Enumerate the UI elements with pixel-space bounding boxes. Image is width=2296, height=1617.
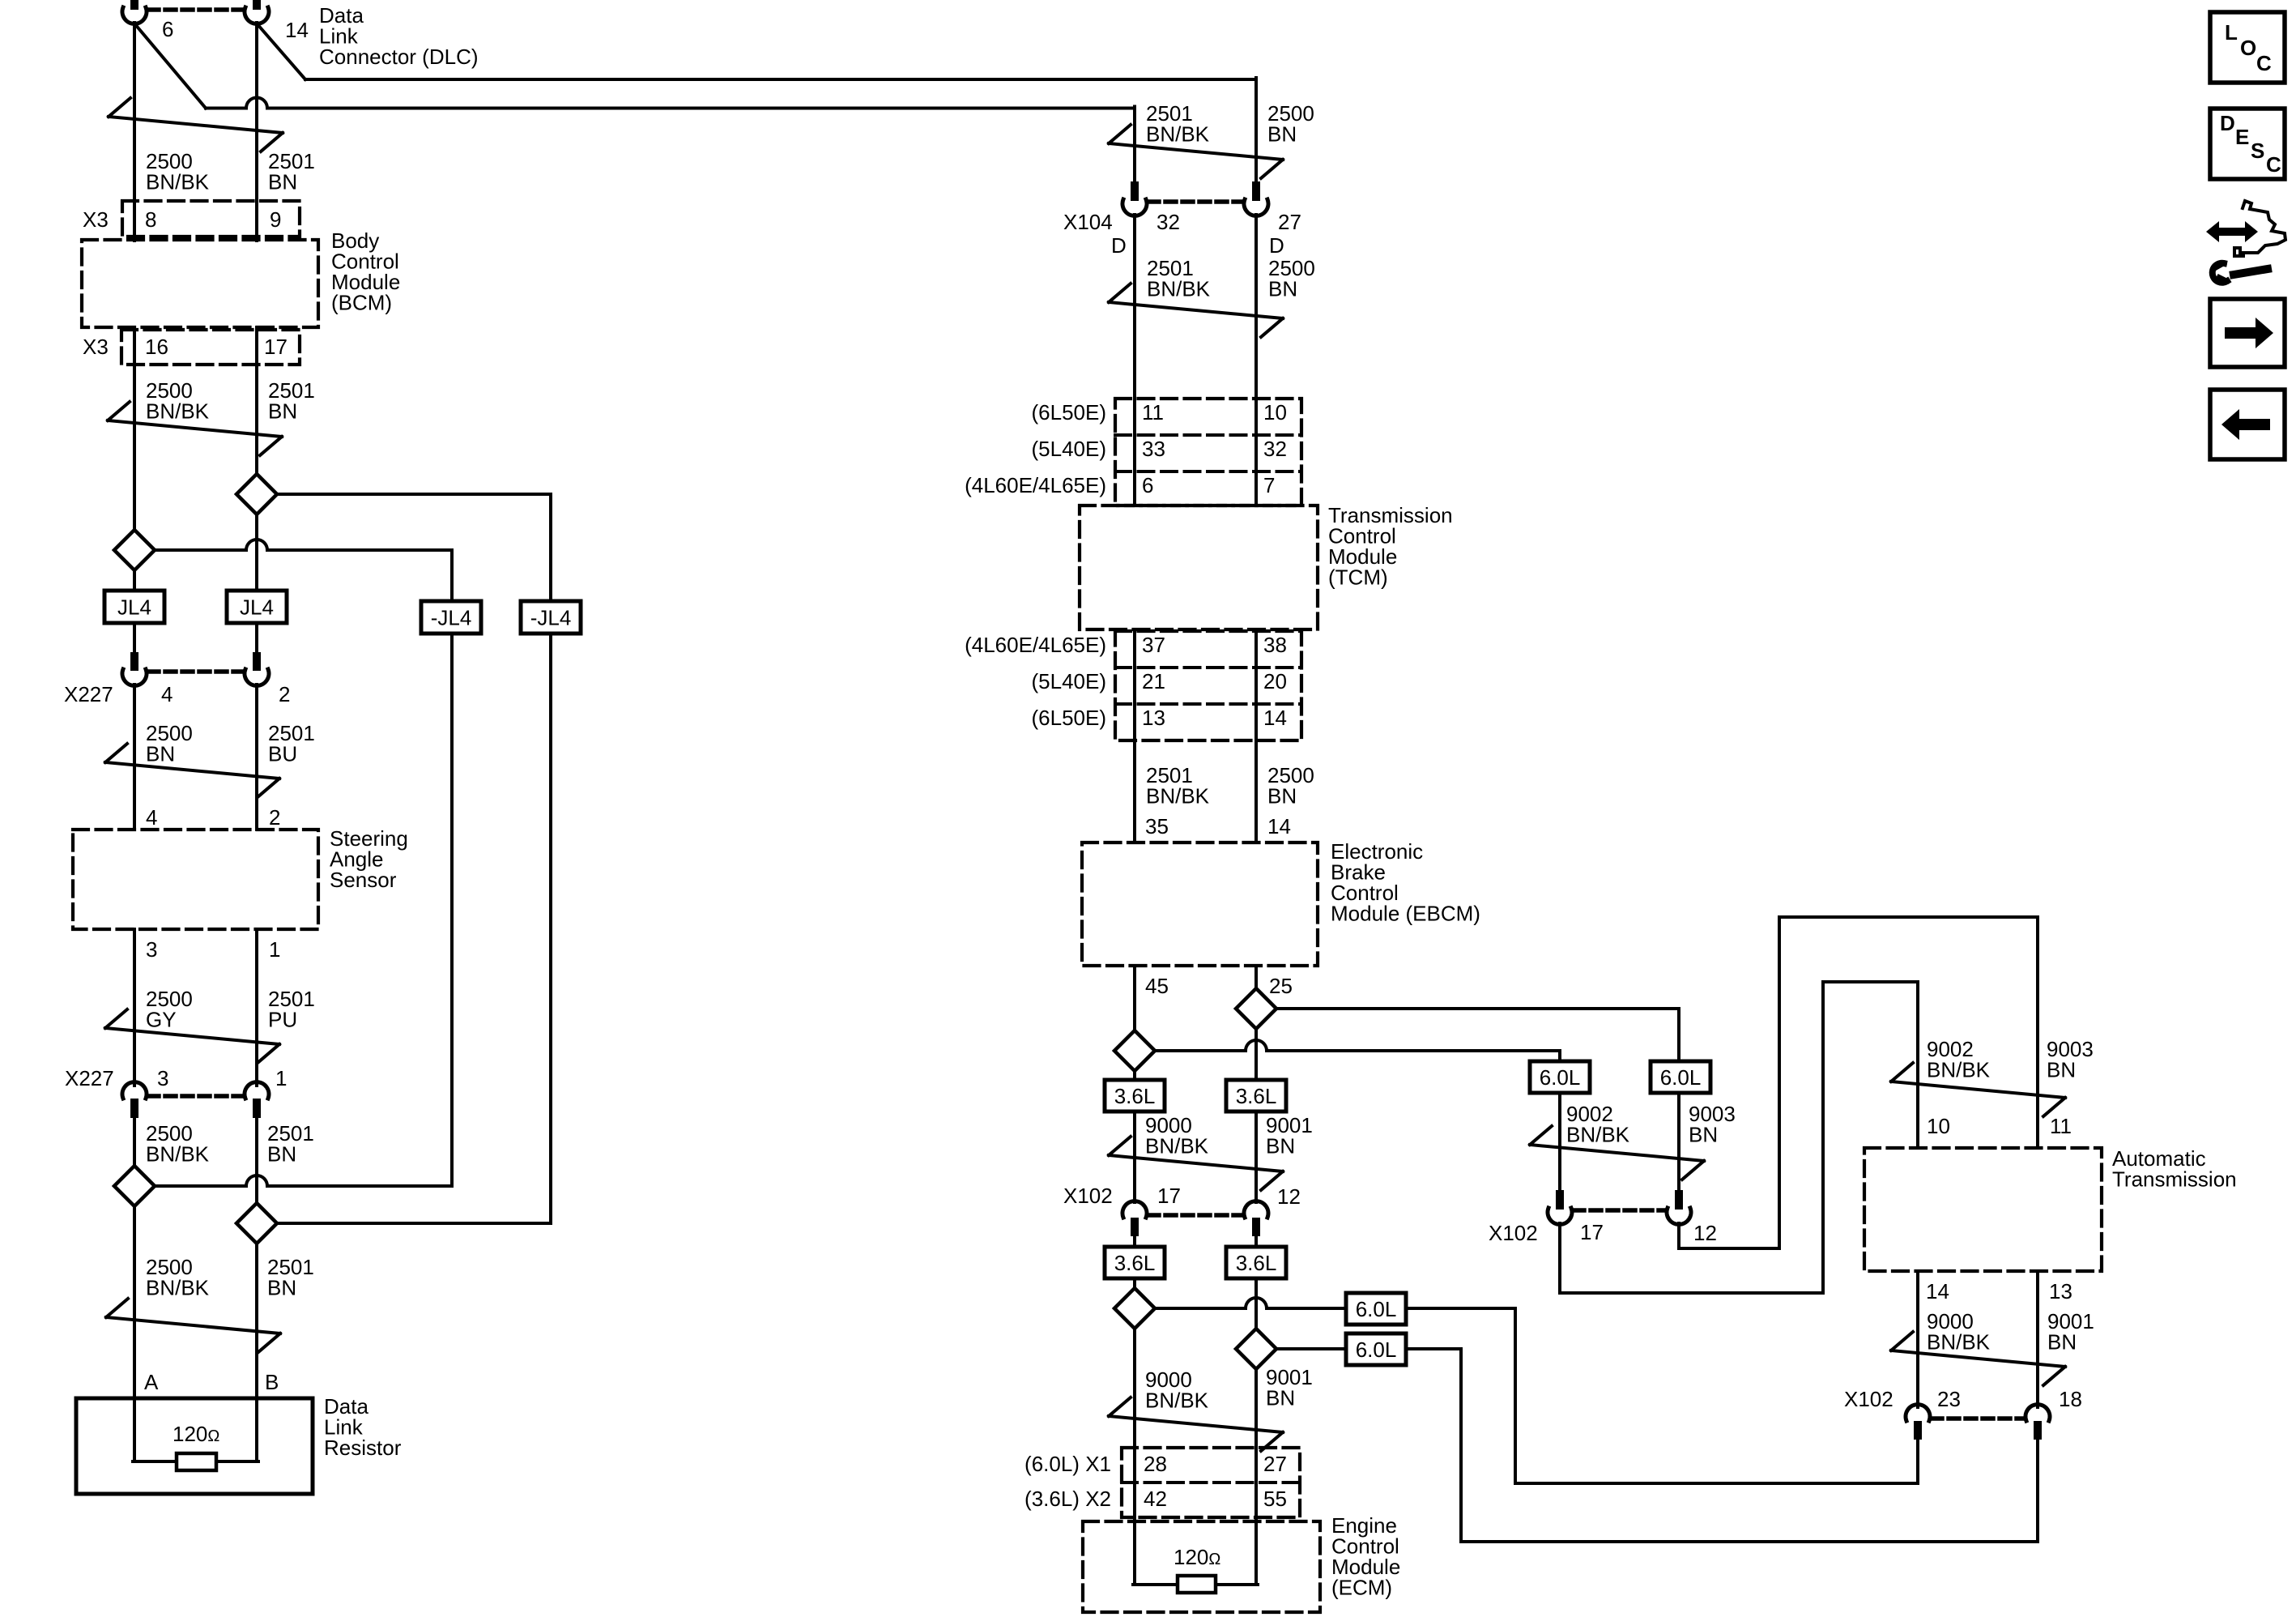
svg-text:C: C	[2256, 51, 2272, 75]
wire branch down at x680	[549, 494, 552, 601]
wire down to AT pin 11	[2036, 917, 2039, 1148]
module ECM dashed box	[1083, 1521, 1320, 1612]
svg-text:E: E	[2235, 125, 2249, 149]
wire splice to 6.0L right box	[1677, 1009, 1680, 1061]
connector X102-17 right female terminal	[1548, 1208, 1572, 1224]
wire JL4-left to X227-4	[133, 623, 136, 653]
wire 2500 BCM X3-16 down	[133, 327, 136, 530]
X104 dashed link	[1148, 199, 1242, 204]
splice diamond 9000	[1114, 1288, 1155, 1329]
component Data Link Resistor box	[76, 1398, 313, 1494]
svg-text:BN/BK: BN/BK	[1927, 1329, 1991, 1354]
connector X3 lower pin row	[121, 330, 300, 365]
wire 6.0L box1 loop down	[1514, 1308, 1517, 1483]
svg-text:JL4: JL4	[117, 595, 151, 620]
splice diamond 9001	[1236, 1329, 1276, 1369]
X102 mid dashed link	[1148, 1213, 1242, 1218]
svg-text:S: S	[2251, 139, 2264, 163]
wire 2500 splice to DLR-A	[133, 1206, 136, 1398]
option box 6.0L upper right	[1651, 1061, 1710, 1093]
connector X3 upper pin row	[122, 201, 300, 237]
wire 2500 X227-3 down to splice	[133, 1118, 136, 1166]
svg-text:L: L	[2225, 20, 2238, 45]
twisted pair symbol below AT	[1891, 1332, 2065, 1385]
svg-text:BN/BK: BN/BK	[146, 1141, 210, 1166]
wire EBCM-25 down	[1254, 966, 1258, 988]
wire 2501 from DLC-14 down to BCM X3-9	[255, 23, 258, 241]
X227 upper dashed link	[148, 669, 243, 674]
svg-text:6.0L: 6.0L	[1356, 1338, 1397, 1362]
svg-text:-JL4: -JL4	[431, 606, 472, 630]
svg-text:14: 14	[1267, 814, 1291, 838]
svg-text:17: 17	[264, 335, 288, 359]
X102 bottom dashed link	[1932, 1416, 2024, 1421]
svg-text:13: 13	[2049, 1279, 2072, 1303]
wire 6.0L box2 loop right	[1461, 1540, 2038, 1543]
wire X102-17 loop up	[1821, 982, 1825, 1293]
svg-text:BN: BN	[146, 741, 175, 766]
svg-text:20: 20	[1263, 669, 1287, 693]
X102 right dashed link	[1574, 1208, 1665, 1213]
option box 6.0L row2	[1346, 1333, 1406, 1365]
wire X102-12 loop up	[1778, 917, 1781, 1248]
svg-text:42: 42	[1144, 1487, 1167, 1511]
wire 2501 X227-1 down to splice	[255, 1118, 258, 1203]
twisted pair symbol above X104	[1109, 125, 1283, 178]
wire DLR-B to resistor	[255, 1398, 258, 1461]
svg-text:BN/BK: BN/BK	[1566, 1122, 1630, 1146]
wire 2501 X227-2 to SAS	[255, 685, 258, 830]
connector X227 pin 3 male terminal	[130, 1099, 138, 1118]
svg-text:BN: BN	[2047, 1329, 2077, 1354]
wire -JL4 branch to splice 2500 with hop	[155, 1175, 452, 1186]
svg-text:(TCM): (TCM)	[1328, 565, 1388, 590]
connector X102-12 male terminal	[1252, 1218, 1260, 1236]
svg-text:BN/BK: BN/BK	[146, 399, 210, 423]
svg-text:X102: X102	[1063, 1184, 1113, 1208]
wire X102-17 to 3.6L row2	[1133, 1236, 1136, 1247]
svg-text:16: 16	[145, 335, 168, 359]
wire X102-17 loop right	[1560, 1291, 1823, 1295]
svg-text:3.6L: 3.6L	[1114, 1251, 1156, 1275]
TCM connector row separator 582	[1115, 470, 1301, 473]
svg-text:BN: BN	[1267, 122, 1297, 146]
svg-text:(3.6L) X2: (3.6L) X2	[1024, 1487, 1111, 1511]
wire -JL4 right branch down	[549, 634, 552, 1223]
svg-text:28: 28	[1144, 1452, 1167, 1476]
svg-text:A: A	[144, 1370, 159, 1394]
resistor 120 ohm ECM	[1178, 1576, 1216, 1593]
wire 2500 X104-27 to TCM	[1254, 215, 1258, 506]
connector X102-18 female terminal	[2026, 1405, 2050, 1421]
option box 6.0L upper left	[1530, 1061, 1590, 1093]
wire EBCM-45 splice to 6.0L left with hop	[1155, 1040, 1560, 1051]
svg-text:BU: BU	[268, 741, 297, 766]
twisted pair symbol below BCM	[108, 402, 282, 455]
wire 9000 splice to ECM	[1133, 1329, 1136, 1585]
wire EBCM-25 splice to 6.0L right	[1276, 1007, 1679, 1010]
wire 6.0L box2 loop up to X102-18	[2036, 1439, 2039, 1542]
twisted pair symbol upper left	[109, 98, 283, 151]
icon back arrow box	[2210, 390, 2285, 459]
svg-text:32: 32	[1263, 437, 1287, 461]
svg-text:(4L60E/4L65E): (4L60E/4L65E)	[965, 633, 1106, 657]
wire ECM X2-42 to resistor	[1133, 1517, 1136, 1585]
svg-text:120Ω: 120Ω	[173, 1422, 219, 1446]
svg-text:3.6L: 3.6L	[1236, 1084, 1277, 1108]
option box 3.6L row1 left	[1105, 1080, 1165, 1111]
svg-text:BN: BN	[1268, 276, 1297, 301]
wire splice to 6.0L left box	[1558, 1051, 1561, 1061]
connector X104 pin 32 female terminal	[1122, 199, 1147, 215]
twisted pair symbol above ECM	[1109, 1397, 1283, 1451]
svg-text:BN: BN	[268, 169, 297, 194]
svg-text:BN/BK: BN/BK	[146, 1275, 210, 1299]
wire 2500 X227-4 to SAS	[133, 685, 136, 830]
svg-text:X3: X3	[83, 335, 109, 359]
connector X227 pin 1 male terminal	[253, 1099, 261, 1118]
svg-text:X102: X102	[1489, 1221, 1538, 1245]
svg-text:BN/BK: BN/BK	[1145, 1388, 1209, 1412]
svg-text:4: 4	[161, 682, 173, 706]
svg-text:BN: BN	[1266, 1385, 1295, 1410]
svg-text:BN/BK: BN/BK	[1147, 276, 1211, 301]
svg-text:X3: X3	[83, 207, 109, 232]
svg-text:X227: X227	[65, 1066, 114, 1090]
twisted pair symbol 9002/9003	[1530, 1126, 1704, 1180]
svg-text:27: 27	[1263, 1452, 1287, 1476]
svg-text:PU: PU	[268, 1007, 297, 1031]
twisted pair symbol above SAS	[105, 744, 279, 797]
svg-text:O: O	[2240, 36, 2256, 60]
svg-text:18: 18	[2059, 1387, 2082, 1411]
wire 2501 X104-32 to TCM	[1133, 215, 1136, 506]
connector X227 pin 3 female terminal	[122, 1082, 147, 1099]
option box JL4 right	[227, 591, 287, 623]
svg-text:BN: BN	[267, 1275, 296, 1299]
svg-text:GY: GY	[146, 1007, 177, 1031]
connector DLC pin 14 male terminal stub	[253, 0, 261, 10]
wire diagonal from DLC-6 to serial data bus	[134, 23, 206, 109]
svg-text:2: 2	[269, 805, 280, 830]
svg-text:Transmission: Transmission	[2112, 1167, 2237, 1192]
svg-text:12: 12	[1277, 1184, 1301, 1209]
wire serial data low to TCM column with hop	[206, 98, 1135, 109]
wire splice to 3.6L left	[1133, 1071, 1136, 1080]
TCM connector rows upper block	[1115, 399, 1301, 506]
module EBCM dashed box	[1082, 843, 1318, 966]
wire X102-17 loop right to AT-10	[1823, 980, 1918, 983]
module BCM dashed box	[82, 240, 318, 327]
svg-text:X104: X104	[1063, 210, 1113, 234]
svg-text:1: 1	[269, 937, 280, 962]
option box 6.0L row1	[1346, 1293, 1406, 1325]
svg-text:33: 33	[1142, 437, 1165, 461]
wire 2501 splice to DLR-B	[255, 1244, 258, 1398]
svg-text:BN: BN	[2047, 1057, 2076, 1082]
wire AT-14 down	[1916, 1271, 1919, 1407]
wire 9000 to X102-17	[1133, 1111, 1136, 1202]
TCM connector rows lower block	[1115, 631, 1301, 740]
ECM connector row separator 1830	[1122, 1481, 1300, 1484]
svg-text:37: 37	[1142, 633, 1165, 657]
wire 2501 BCM X3-17 down	[255, 327, 258, 474]
icon DESC box	[2210, 109, 2285, 179]
option box -JL4 left	[421, 601, 481, 634]
svg-text:D: D	[1111, 233, 1127, 258]
svg-text:4: 4	[146, 805, 157, 830]
svg-text:13: 13	[1142, 706, 1165, 730]
svg-text:14: 14	[1926, 1279, 1949, 1303]
wire serial data high to TCM column	[305, 78, 1256, 81]
svg-text:17: 17	[1157, 1184, 1181, 1208]
resistor 120 ohm DLR	[177, 1453, 216, 1470]
twisted pair symbol above AT	[1891, 1063, 2065, 1116]
svg-text:11: 11	[1142, 400, 1164, 425]
svg-text:10: 10	[1263, 400, 1287, 425]
svg-text:BN/BK: BN/BK	[1146, 783, 1210, 808]
svg-text:25: 25	[1269, 974, 1293, 998]
svg-text:JL4: JL4	[240, 595, 274, 620]
wire down to AT pin 10	[1916, 982, 1919, 1148]
svg-text:45: 45	[1145, 974, 1169, 998]
icon forward arrow box	[2210, 299, 2285, 367]
svg-text:BN: BN	[268, 399, 297, 423]
svg-text:11: 11	[2050, 1114, 2072, 1138]
svg-text:3: 3	[146, 937, 157, 962]
svg-text:B: B	[265, 1370, 279, 1394]
wire 9001 to X102-12	[1254, 1111, 1258, 1202]
svg-text:BN/BK: BN/BK	[146, 169, 210, 194]
connector X102-12 right male terminal	[1675, 1190, 1683, 1210]
wire JL4-right to X227-2	[255, 623, 258, 653]
wire 9002 to X102-17 right	[1558, 1093, 1561, 1189]
svg-text:-JL4: -JL4	[530, 606, 572, 630]
connector X102-23 male terminal	[1914, 1421, 1922, 1440]
svg-text:(6L50E): (6L50E)	[1032, 706, 1107, 730]
svg-text:35: 35	[1145, 814, 1169, 838]
svg-text:1: 1	[275, 1066, 287, 1090]
splice diamond on wire 2500 lower	[114, 1166, 155, 1206]
connector X102-17 right male terminal	[1556, 1190, 1564, 1210]
wire 6.0L box2 east	[1406, 1347, 1461, 1350]
svg-text:D: D	[1269, 233, 1284, 258]
connector X102-18 male terminal	[2034, 1421, 2042, 1440]
svg-text:23: 23	[1937, 1387, 1961, 1411]
connector X104 pin 27 male terminal	[1252, 181, 1260, 201]
svg-text:BN/BK: BN/BK	[1146, 122, 1210, 146]
TCM connector row separator 824	[1115, 666, 1301, 669]
wire splice 9000 to 6.0L box1 with hop	[1155, 1298, 1346, 1308]
module TCM dashed box	[1080, 506, 1318, 629]
wire 3.6L row2 left to splice	[1133, 1278, 1136, 1288]
svg-text:BN/BK: BN/BK	[1927, 1057, 1991, 1082]
splice diamond on wire 2500	[114, 530, 155, 570]
splice diamond on wire 2501 lower	[236, 1203, 277, 1244]
wire X102-12 to 3.6L row2	[1254, 1236, 1258, 1247]
icon LOC box	[2210, 12, 2285, 83]
wire 6.0L box1 east	[1406, 1307, 1515, 1310]
splice diamond EBCM-25	[1236, 988, 1276, 1029]
wire 9001 splice to ECM	[1254, 1369, 1258, 1585]
connector DLC pin 6 female terminal	[122, 7, 147, 23]
svg-text:6.0L: 6.0L	[1356, 1297, 1397, 1321]
svg-text:32: 32	[1157, 210, 1180, 234]
svg-text:Sensor: Sensor	[330, 868, 397, 892]
option box 3.6L row2 left	[1105, 1247, 1165, 1278]
twisted pair symbol above X102 mid	[1109, 1137, 1283, 1190]
svg-text:8: 8	[145, 207, 156, 232]
svg-text:BN: BN	[1266, 1133, 1295, 1158]
connector X102-12 female terminal	[1244, 1201, 1268, 1218]
svg-text:X102: X102	[1844, 1387, 1893, 1411]
svg-text:2: 2	[279, 682, 290, 706]
wire splice 2500 to -JL4 branch with hop	[155, 540, 452, 550]
connector X227 pin 1 female terminal	[245, 1082, 269, 1099]
connector X102-23 female terminal	[1906, 1405, 1930, 1421]
twisted pair symbol below X104	[1109, 284, 1283, 337]
svg-text:38: 38	[1263, 633, 1287, 657]
TCM connector row separator 869	[1115, 702, 1301, 706]
X227 lower dashed link	[148, 1094, 243, 1099]
svg-text:6: 6	[1142, 473, 1153, 497]
svg-text:21: 21	[1142, 669, 1165, 693]
wire 2501 SAS-1 down	[255, 929, 258, 1086]
wire 2500 from DLC-6 down to BCM X3-8	[133, 23, 136, 241]
wire 2501 diamond to JL4	[255, 514, 258, 591]
svg-text:3: 3	[157, 1066, 168, 1090]
wire 3.6L row2 right to splice	[1254, 1278, 1258, 1329]
splice diamond EBCM-45	[1114, 1030, 1155, 1071]
svg-text:C: C	[2266, 152, 2281, 177]
ECM connector rows block	[1122, 1448, 1300, 1517]
module Automatic Transmission dashed box	[1864, 1148, 2102, 1271]
svg-text:Connector (DLC): Connector (DLC)	[319, 45, 479, 69]
svg-text:9: 9	[270, 207, 281, 232]
wire X102-17 loop down	[1558, 1223, 1561, 1293]
svg-text:3.6L: 3.6L	[1114, 1084, 1156, 1108]
wire 6.0L box1 loop up to X102-23	[1916, 1439, 1919, 1483]
connector X102-17 female terminal	[1122, 1201, 1147, 1218]
svg-text:(5L40E): (5L40E)	[1032, 437, 1107, 461]
connector DLC pin 6 male terminal stub	[130, 0, 138, 10]
wire 9003 to X102-12 right	[1677, 1093, 1680, 1189]
wire 2500 SAS-3 down	[133, 929, 136, 1086]
svg-text:X227: X227	[64, 682, 113, 706]
DLC connector dashed link	[148, 7, 243, 12]
wire -JL4 branch to splice 2501	[277, 1222, 551, 1225]
option box -JL4 right	[521, 601, 581, 634]
svg-text:(6.0L) X1: (6.0L) X1	[1024, 1452, 1111, 1476]
twisted pair symbol above DLR	[106, 1299, 280, 1352]
svg-text:3.6L: 3.6L	[1236, 1251, 1277, 1275]
option box 3.6L row1 right	[1226, 1080, 1286, 1111]
svg-text:6.0L: 6.0L	[1540, 1065, 1581, 1090]
connector DLC pin 14 female terminal	[245, 7, 269, 23]
svg-text:27: 27	[1278, 210, 1301, 234]
wire 6.0L box2 loop down	[1459, 1349, 1463, 1542]
svg-text:10: 10	[1927, 1114, 1950, 1138]
wire ECM X2-55 to resistor	[1254, 1517, 1258, 1585]
svg-text:BN: BN	[1689, 1122, 1718, 1146]
option box JL4 left	[104, 591, 164, 623]
svg-text:12: 12	[1693, 1221, 1717, 1245]
connector X227 pin 2 male terminal	[253, 652, 261, 671]
svg-text:120Ω: 120Ω	[1174, 1545, 1220, 1569]
svg-text:55: 55	[1263, 1487, 1287, 1511]
wire splice 9001 to 6.0L box2	[1276, 1347, 1346, 1350]
wire diagonal from DLC-14 to serial data bus	[257, 23, 305, 79]
wire 6.0L box1 loop right	[1515, 1482, 1918, 1485]
svg-text:(BCM): (BCM)	[331, 291, 392, 315]
svg-text:D: D	[2220, 111, 2235, 135]
wire 2501 BN/BK corner into TCM column	[1133, 107, 1136, 184]
connector X227 pin 4 male terminal	[130, 652, 138, 671]
wire EBCM-45 down	[1133, 966, 1136, 1030]
svg-text:BN: BN	[1267, 783, 1297, 808]
svg-text:BN/BK: BN/BK	[1145, 1133, 1209, 1158]
connector X104 pin 32 male terminal	[1131, 181, 1139, 201]
svg-text:(6L50E): (6L50E)	[1032, 400, 1107, 425]
wire X102-12 loop right	[1679, 1247, 1779, 1250]
svg-text:BN: BN	[267, 1141, 296, 1166]
wire branch down at x558	[450, 550, 454, 601]
svg-text:Module (EBCM): Module (EBCM)	[1331, 902, 1480, 926]
TCM connector row separator 537	[1115, 433, 1301, 437]
svg-text:(4L60E/4L65E): (4L60E/4L65E)	[965, 473, 1106, 497]
svg-text:7: 7	[1263, 473, 1275, 497]
wire 2500 BN corner into TCM column	[1254, 78, 1258, 183]
twisted pair symbol above X227 lower	[105, 1009, 279, 1063]
wire splice to 3.6L right	[1254, 1029, 1258, 1080]
svg-text:(5L40E): (5L40E)	[1032, 669, 1107, 693]
connector X104 pin 27 female terminal	[1244, 199, 1268, 215]
connector X227 pin 4 female terminal	[122, 669, 147, 685]
connector X102-12 right female terminal	[1667, 1208, 1691, 1224]
connector X102-17 male terminal	[1131, 1218, 1139, 1236]
splice diamond on wire 2501	[236, 474, 277, 514]
wire 2500 TCM to EBCM	[1254, 629, 1258, 843]
option box 3.6L row2 right	[1226, 1247, 1286, 1278]
svg-text:Resistor: Resistor	[324, 1436, 402, 1460]
svg-text:6: 6	[162, 17, 173, 41]
wire X102-12 loop right to AT-11	[1779, 915, 2038, 919]
module Steering Angle Sensor dashed box	[73, 830, 318, 929]
svg-text:14: 14	[285, 18, 309, 42]
wire DLR-A to resistor	[133, 1398, 136, 1461]
svg-text:14: 14	[1263, 706, 1287, 730]
svg-text:17: 17	[1580, 1220, 1604, 1244]
wire splice 2501 to -JL4 branch	[277, 493, 551, 496]
connector X227 pin 2 female terminal	[245, 669, 269, 685]
wire 2500 diamond to JL4	[133, 570, 136, 591]
wire X102-12 loop down	[1677, 1223, 1680, 1248]
wire AT-13 down	[2036, 1271, 2039, 1407]
wire 2501 TCM to EBCM	[1133, 629, 1136, 843]
svg-text:6.0L: 6.0L	[1660, 1065, 1702, 1090]
icon harness repair	[2206, 221, 2258, 242]
svg-text:(ECM): (ECM)	[1331, 1576, 1392, 1600]
wire -JL4 left branch down	[450, 634, 454, 1186]
